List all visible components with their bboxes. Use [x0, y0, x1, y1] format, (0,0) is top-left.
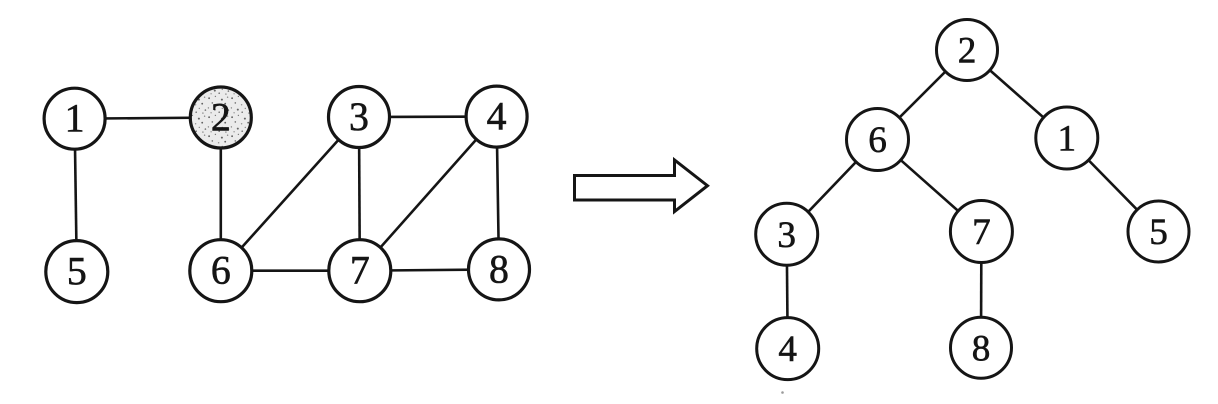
- node 4: [466, 86, 527, 147]
- svg-text:8: 8: [489, 247, 509, 291]
- svg-text:8: 8: [972, 328, 991, 369]
- wire edge 7-8: [360, 269, 499, 270]
- wire edge 3-6: [221, 117, 359, 271]
- tree node 6: [847, 109, 909, 171]
- svg-text:1: 1: [65, 97, 85, 141]
- tree node 2: [937, 20, 998, 81]
- wire edge t6-t7: [878, 140, 982, 232]
- node 6: [190, 240, 252, 302]
- wire edge t1-t5: [1067, 138, 1159, 232]
- wire edge 1-2: [75, 118, 221, 119]
- tree node 4: [757, 318, 819, 380]
- wire edge t7-t8: [980, 232, 983, 348]
- wire edge t2-t6: [878, 50, 968, 140]
- tree node 5: [1128, 201, 1189, 262]
- svg-text:5: 5: [67, 250, 87, 294]
- node 8: [469, 239, 530, 300]
- wire edge t3-t4: [787, 234, 788, 348]
- svg-text:7: 7: [350, 249, 370, 293]
- svg-text:7: 7: [972, 212, 991, 253]
- node 5: [46, 241, 108, 303]
- tree node 1: [1036, 107, 1098, 169]
- wire edge t6-t3: [787, 140, 878, 235]
- wire edge 2-6: [220, 118, 223, 271]
- node 3: [329, 87, 390, 148]
- wire edge 6-7: [221, 269, 360, 272]
- wire edge 1-5: [75, 119, 77, 272]
- wire edge t2-t1: [967, 50, 1067, 138]
- arrow (block arrow pointing right): [575, 160, 708, 212]
- svg-text:5: 5: [1149, 212, 1168, 253]
- tree node 7: [950, 201, 1012, 263]
- svg-text:6: 6: [868, 120, 887, 161]
- node 2 (stippled): [190, 87, 251, 148]
- svg-text:6: 6: [211, 249, 231, 293]
- tree node 8: [951, 317, 1012, 378]
- node 7: [329, 240, 391, 302]
- svg-text:4: 4: [487, 95, 507, 139]
- svg-text:1: 1: [1058, 119, 1077, 160]
- wire edge 3-4: [359, 115, 497, 118]
- wire edge 4-8: [497, 117, 499, 270]
- wire edge 4-7: [360, 117, 497, 271]
- svg-text:3: 3: [349, 95, 369, 139]
- svg-text:3: 3: [777, 215, 796, 256]
- svg-text:4: 4: [778, 329, 797, 370]
- speck (scan artifact): [781, 391, 784, 394]
- node 1: [44, 88, 105, 149]
- wire edge 3-7: [358, 117, 361, 271]
- tree node 3: [756, 203, 818, 265]
- svg-text:2: 2: [211, 96, 231, 140]
- svg-text:2: 2: [958, 31, 977, 72]
